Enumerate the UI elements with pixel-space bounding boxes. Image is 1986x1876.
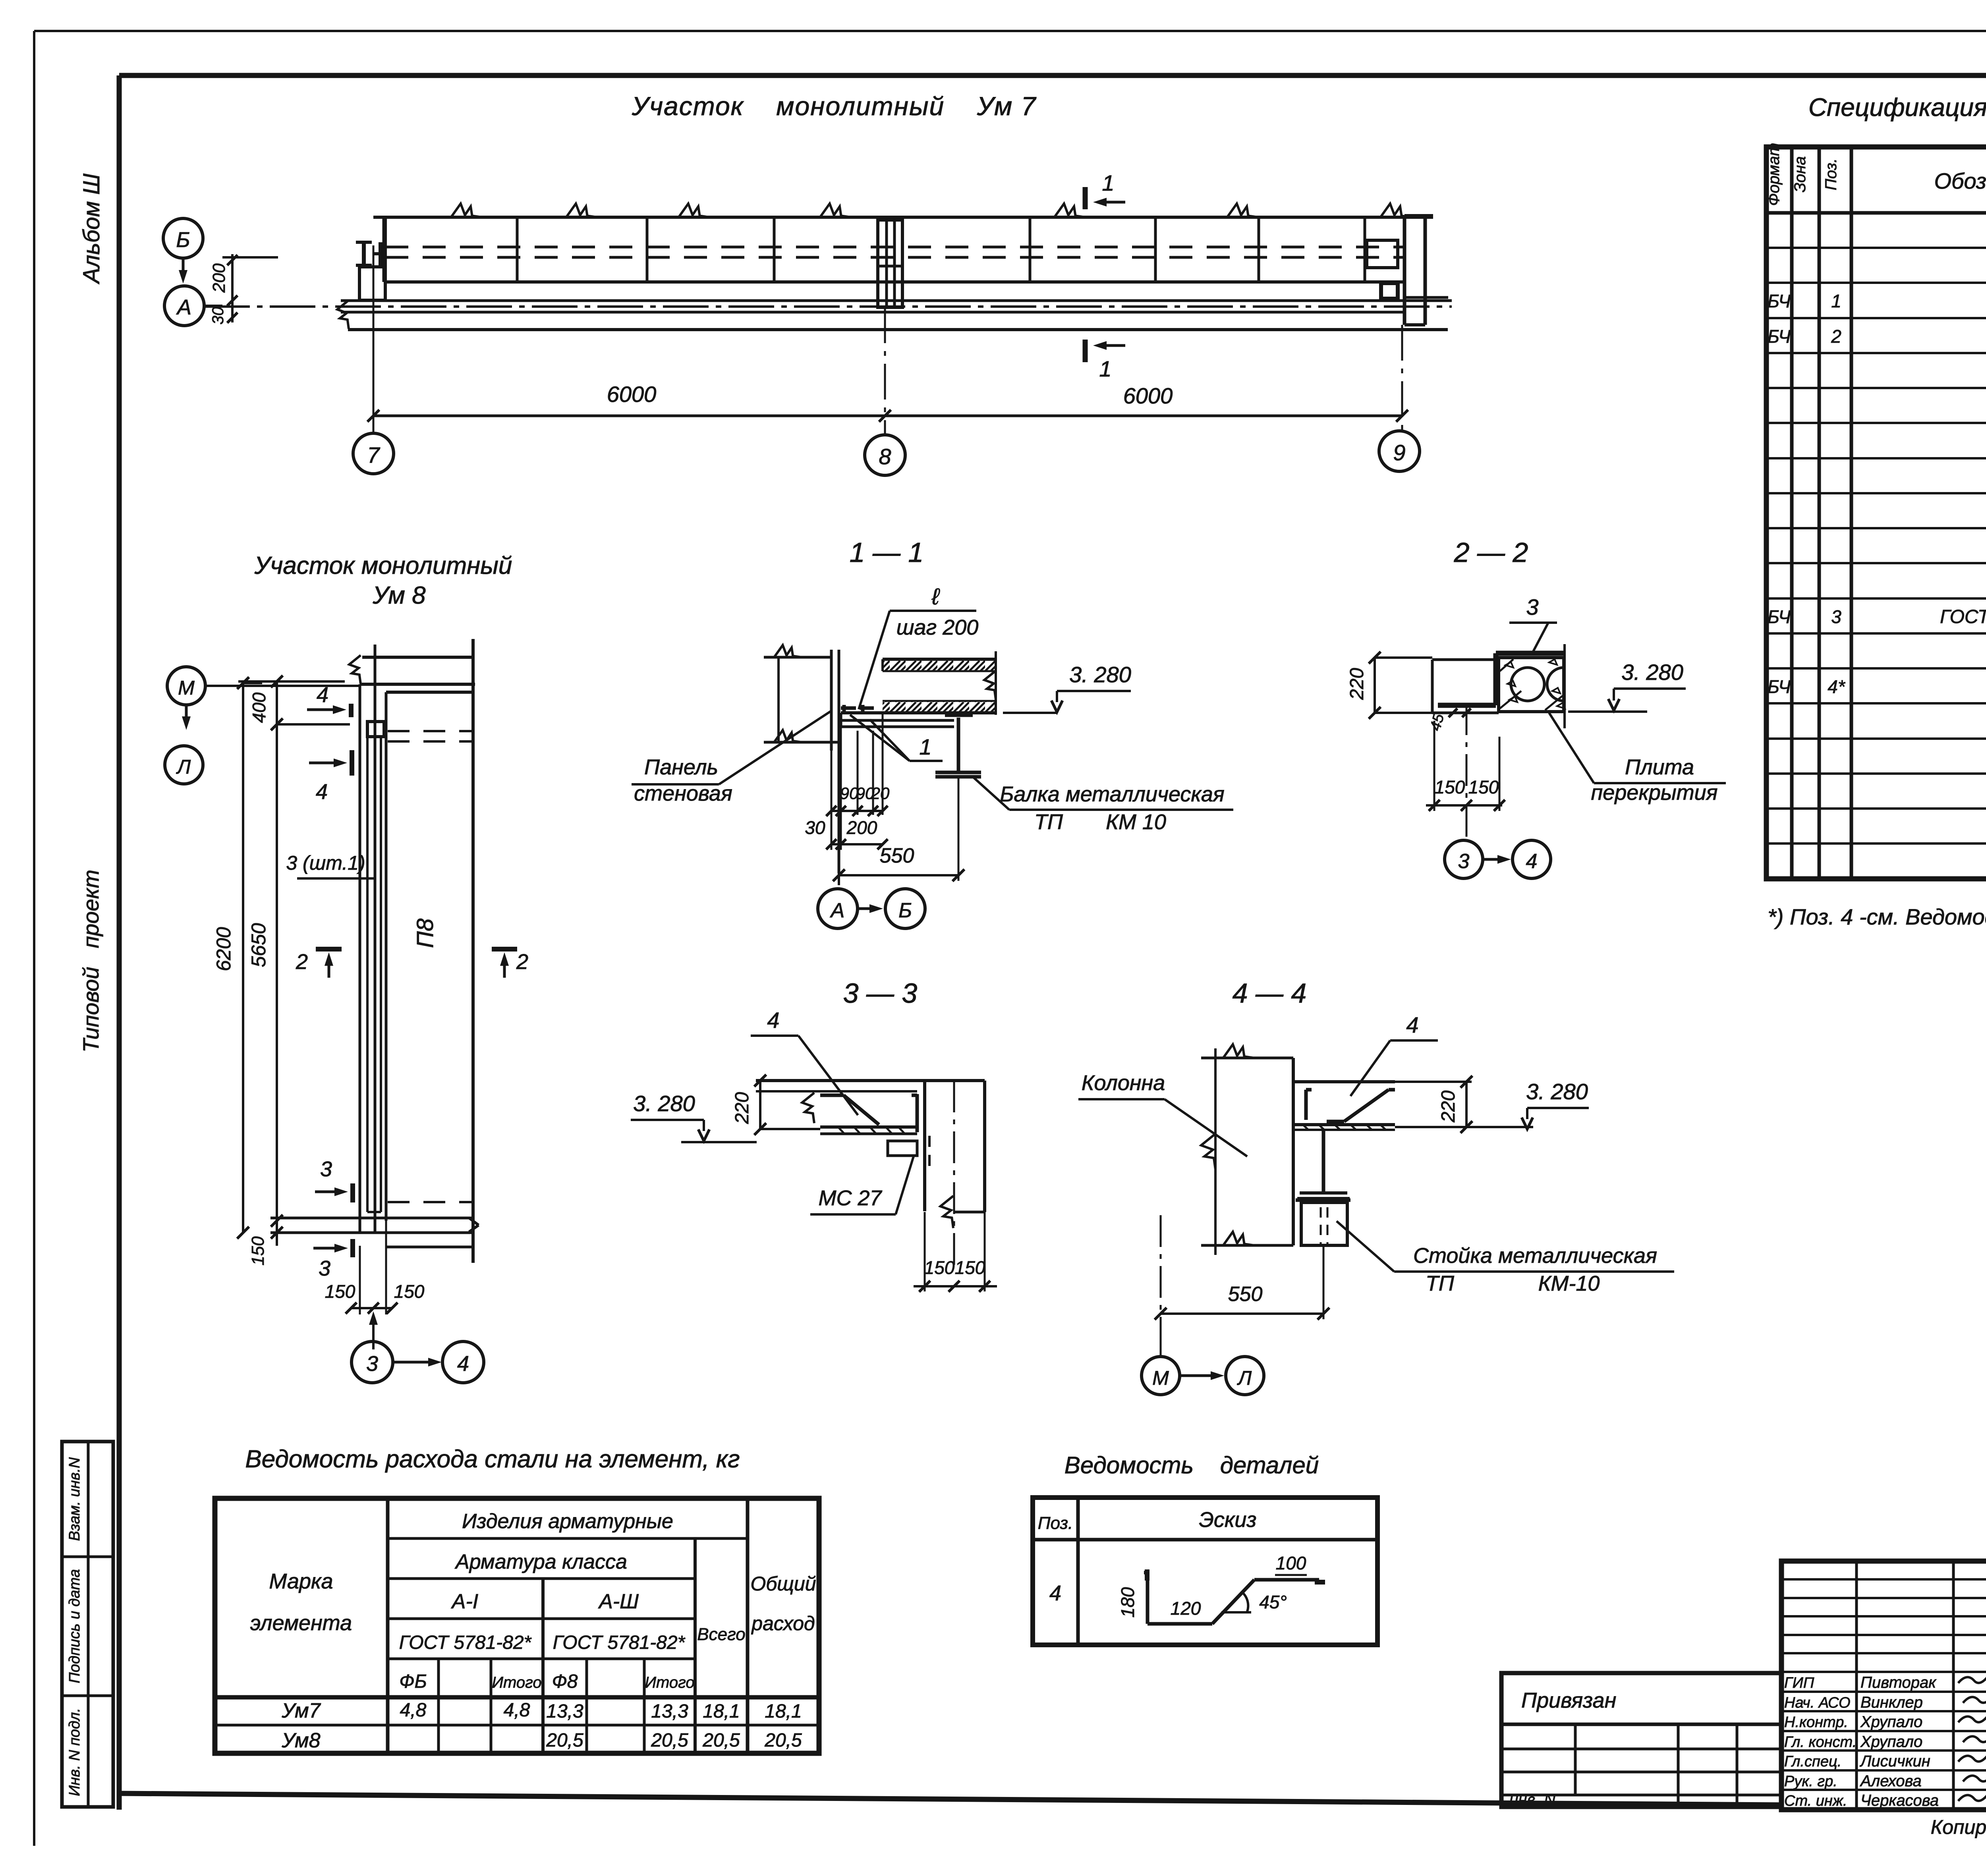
rebar pos.3 strip xyxy=(366,737,369,1212)
detail 4 sketch xyxy=(1146,1575,1149,1624)
svg-text:Нач. АСО: Нач. АСО xyxy=(1784,1695,1851,1711)
dim 550 (sec 1-1) xyxy=(839,874,958,876)
P8 panel right edge xyxy=(471,639,475,1263)
svg-text:4 — 4: 4 — 4 xyxy=(1233,978,1307,1009)
grid circle 3 (bottom) xyxy=(372,1325,375,1349)
bearing plate xyxy=(1296,1199,1350,1202)
svg-text:4: 4 xyxy=(1526,850,1538,873)
svg-text:Колонна: Колонна xyxy=(1082,1071,1165,1095)
small anchor plate xyxy=(1381,283,1398,299)
small dims 200 / 30 near grid 7 xyxy=(231,254,234,322)
svg-text:Рук. гр.: Рук. гр. xyxy=(1784,1773,1837,1790)
dim 6200 xyxy=(242,683,244,1233)
axis circle L (sec 4-4) xyxy=(1226,1357,1264,1395)
bottom dim 150 150 xyxy=(351,1307,392,1309)
dim line 30 / 200 xyxy=(831,843,883,845)
M axis vertical xyxy=(1160,1215,1162,1310)
I-beam KM10: web xyxy=(957,718,960,772)
svg-text:30: 30 xyxy=(209,307,227,325)
dim 400 xyxy=(276,681,278,724)
svg-text:А-Ш: А-Ш xyxy=(598,1590,639,1613)
svg-text:180: 180 xyxy=(1117,1587,1138,1617)
section 1-1 cut mark (top) xyxy=(1083,187,1088,209)
svg-text:4*: 4* xyxy=(1828,676,1846,697)
svg-text:3. 280: 3. 280 xyxy=(1621,660,1683,685)
svg-text:4: 4 xyxy=(1049,1581,1061,1605)
column (sec 4-4) xyxy=(1292,1058,1295,1245)
svg-text:3 (шт.1): 3 (шт.1) xyxy=(286,852,365,874)
svg-text:6000: 6000 xyxy=(1123,383,1173,408)
svg-text:1: 1 xyxy=(1099,356,1111,381)
Um8 top slab edges xyxy=(362,656,473,659)
extension lines 150 150 xyxy=(1433,721,1435,811)
svg-text:БЧ: БЧ xyxy=(1768,676,1791,697)
dim line 90 90 20 xyxy=(831,810,883,812)
svg-text:1: 1 xyxy=(919,734,931,759)
svg-text:550: 550 xyxy=(880,844,914,867)
panel joints xyxy=(383,217,385,282)
svg-text:Общий: Общий xyxy=(750,1573,816,1595)
svg-text:13,3: 13,3 xyxy=(651,1701,688,1722)
svg-text:20,5: 20,5 xyxy=(651,1730,688,1751)
svg-text:3: 3 xyxy=(366,1352,378,1376)
svg-text:БЧ: БЧ xyxy=(1768,291,1791,311)
svg-text:Эскиз: Эскиз xyxy=(1199,1508,1256,1532)
svg-text:ФБ: ФБ xyxy=(399,1671,427,1692)
svg-text:4: 4 xyxy=(316,780,328,804)
svg-text:220: 220 xyxy=(1438,1090,1459,1123)
wall panel verticals xyxy=(830,650,833,751)
grid line 8 xyxy=(884,307,886,435)
svg-text:3: 3 xyxy=(1526,594,1538,620)
svg-text:Зона: Зона xyxy=(1791,156,1809,192)
section mark 4 (lower) xyxy=(350,750,354,776)
svg-text:Типовой проект: Типовой проект xyxy=(78,870,103,1052)
svg-text:М: М xyxy=(1152,1367,1169,1389)
Um8 bottom edges xyxy=(270,1217,474,1220)
svg-text:20: 20 xyxy=(871,784,890,803)
svg-text:Участок монолитный: Участок монолитный xyxy=(254,552,512,579)
svg-text:Изделия арматурные: Изделия арматурные xyxy=(462,1510,673,1533)
svg-text:3: 3 xyxy=(1831,606,1841,627)
svg-text:Алехова: Алехова xyxy=(1860,1772,1922,1790)
slab bottom edge xyxy=(841,711,996,714)
svg-text:7: 7 xyxy=(367,442,380,467)
svg-text:1: 1 xyxy=(1831,291,1841,311)
svg-text:4,8: 4,8 xyxy=(504,1700,530,1721)
svg-text:Хрупало: Хрупало xyxy=(1860,1713,1922,1731)
axis circle M xyxy=(167,667,205,705)
svg-text:20,5: 20,5 xyxy=(546,1730,583,1751)
svg-text:4: 4 xyxy=(767,1007,779,1033)
svg-text:Арматура класса: Арматура класса xyxy=(454,1550,627,1573)
svg-text:150: 150 xyxy=(325,1281,355,1302)
section mark 2 (right) xyxy=(492,947,517,952)
end wall piece at grid 7 xyxy=(359,267,385,300)
svg-text:Альбом Ш: Альбом Ш xyxy=(79,173,104,284)
svg-text:*) Поз. 4 -см. Ведомость дет: *) Поз. 4 -см. Ведомость деталей xyxy=(1768,904,1986,929)
hidden dashed line bottom xyxy=(388,1201,472,1203)
dim 150 (bottom left) xyxy=(276,1221,278,1246)
inner drawing frame xyxy=(119,73,1986,78)
slab half core at edge xyxy=(1547,668,1564,701)
svg-text:инв. N: инв. N xyxy=(1509,1791,1555,1808)
anchor bar xyxy=(1304,1090,1308,1120)
dim 220 (sec 2-2) xyxy=(1374,658,1376,713)
axis circle 3 (sec 2-2) xyxy=(1445,840,1483,878)
svg-text:КМ 10: КМ 10 xyxy=(1106,810,1166,834)
svg-text:Спецификация участков мон: Спецификация участков монолитных Ум 7, У… xyxy=(1808,93,1986,122)
svg-text:120: 120 xyxy=(1171,1598,1201,1619)
thin formwork rect xyxy=(1431,660,1434,713)
svg-text:Хрупало: Хрупало xyxy=(1860,1733,1922,1751)
svg-text:Ум7: Ум7 xyxy=(281,1699,321,1722)
main title block frame xyxy=(1781,1561,1986,1810)
svg-text:Формат: Формат xyxy=(1765,143,1783,206)
axis dash-dot (sec 2-2) xyxy=(1466,703,1468,840)
svg-text:150: 150 xyxy=(924,1257,955,1278)
svg-text:9: 9 xyxy=(1393,440,1405,465)
panel band: hidden dashed lines xyxy=(385,246,1404,249)
beam shelf (sec 3-3) xyxy=(820,1125,917,1129)
slab hatched strips xyxy=(883,661,996,671)
svg-text:200: 200 xyxy=(209,263,229,293)
svg-text:2 — 2: 2 — 2 xyxy=(1454,537,1528,568)
lower slab edge line xyxy=(341,311,1404,314)
svg-text:ГОСТ 5781-82*: ГОСТ 5781-82* xyxy=(553,1632,686,1653)
svg-text:4: 4 xyxy=(1406,1012,1418,1037)
hollow core slab outline xyxy=(1499,658,1564,712)
svg-text:150: 150 xyxy=(394,1281,425,1302)
svg-text:Ф8: Ф8 xyxy=(552,1671,578,1692)
svg-text:150: 150 xyxy=(248,1236,268,1266)
signature table columns xyxy=(1855,1561,1858,1810)
dim 5650 xyxy=(276,724,278,1221)
svg-text:550: 550 xyxy=(1228,1283,1263,1306)
axis circle B xyxy=(163,218,203,258)
panel band: bottom edge xyxy=(385,280,1404,284)
svg-text:А: А xyxy=(830,899,845,922)
svg-text:3: 3 xyxy=(320,1157,332,1181)
left stamp table xyxy=(62,1442,113,1807)
slab core circle xyxy=(1511,668,1544,701)
monolith thick outline xyxy=(1496,651,1565,656)
svg-text:Гл. конст.: Гл. конст. xyxy=(1784,1734,1857,1751)
svg-text:ℓ: ℓ xyxy=(931,584,940,610)
svg-text:Гл.спец.: Гл.спец. xyxy=(1784,1753,1841,1770)
bottom outline xyxy=(348,328,1448,331)
I-beam bottom flange xyxy=(935,771,981,774)
svg-text:3. 280: 3. 280 xyxy=(1526,1079,1588,1104)
svg-text:6200: 6200 xyxy=(213,927,235,971)
svg-text:220: 220 xyxy=(732,1092,753,1124)
beam top flange xyxy=(1293,1123,1395,1126)
svg-text:Пивторак: Пивторак xyxy=(1860,1674,1937,1691)
svg-text:2: 2 xyxy=(516,950,528,974)
hidden dashed pair top xyxy=(388,730,473,732)
grid line 7 xyxy=(373,245,375,433)
axis circle 4 (sec 2-2) xyxy=(1513,840,1551,878)
end column at grid 9 xyxy=(1403,216,1406,325)
svg-text:БЧ: БЧ xyxy=(1768,326,1791,347)
axis circle A (sec 1-1) xyxy=(818,889,858,928)
svg-text:Ведомость деталей: Ведомость деталей xyxy=(1064,1452,1319,1478)
I-beam end symbol at grid 7 xyxy=(362,242,366,265)
spec table grid xyxy=(1766,147,1986,879)
svg-text:Винклер: Винклер xyxy=(1860,1694,1923,1711)
grid line 9 xyxy=(1401,325,1403,431)
svg-text:Ведомость расхода стали на э: Ведомость расхода стали на элемент, кг xyxy=(245,1446,740,1473)
svg-text:Участок монолитный Ум 7: Участок монолитный Ум 7 xyxy=(632,91,1037,121)
bent bar pos4 xyxy=(820,1094,844,1097)
svg-text:220: 220 xyxy=(1347,668,1368,700)
steel table grid xyxy=(215,1498,819,1753)
svg-text:400: 400 xyxy=(249,692,269,723)
grid circle 9 xyxy=(1379,431,1420,471)
svg-text:ГОСТ 5781-82*: ГОСТ 5781-82* xyxy=(399,1632,532,1653)
slab top edge xyxy=(883,658,996,661)
svg-text:20,5: 20,5 xyxy=(764,1730,802,1751)
wall axis dash below xyxy=(838,873,840,889)
axis circle B (sec 1-1) xyxy=(885,889,925,928)
svg-text:Копировал Марченко: Копировал Марченко xyxy=(1931,1816,1986,1838)
svg-text:БЧ: БЧ xyxy=(1768,606,1791,627)
45 deg arc xyxy=(1242,1592,1248,1612)
wall panel band: top edge xyxy=(373,216,1433,219)
column break top xyxy=(1201,1057,1293,1060)
svg-text:4: 4 xyxy=(317,683,328,707)
svg-text:ТП: ТП xyxy=(1426,1272,1455,1295)
dim 550 (sec 4-4) xyxy=(1161,1312,1323,1315)
Um8 strip verticals xyxy=(359,684,361,1233)
grid circle 7 xyxy=(353,433,394,474)
rebar hooks pos 1 xyxy=(841,706,856,710)
right extension line xyxy=(1563,644,1566,728)
svg-text:150: 150 xyxy=(1468,777,1499,797)
svg-text:Инв. N подл.: Инв. N подл. xyxy=(66,1708,83,1796)
column at grid 8 xyxy=(878,220,902,307)
bent bar pos 4 xyxy=(1327,1120,1344,1123)
beam line below panels xyxy=(341,299,1452,302)
top slab line (sec 3-3) xyxy=(756,1079,985,1082)
svg-text:Поз.: Поз. xyxy=(1822,158,1840,191)
svg-text:А: А xyxy=(176,295,191,319)
svg-text:Стойка металлическая: Стойка металлическая xyxy=(1413,1244,1657,1268)
svg-text:А-I: А-I xyxy=(451,1590,478,1613)
svg-text:Черкасова: Черкасова xyxy=(1860,1792,1939,1809)
axis A dash-dot line xyxy=(204,305,1452,308)
section 1-1 cut mark (bottom) xyxy=(1083,340,1088,362)
svg-text:ГОСТ 8478-81: ГОСТ 8478-81 xyxy=(1940,606,1986,627)
svg-text:8: 8 xyxy=(879,444,891,469)
grid circle 4 (bottom) xyxy=(442,1341,484,1383)
ledge plate left of grid-9 column xyxy=(1367,240,1398,268)
left break verticals xyxy=(1214,1048,1217,1255)
concrete speckles xyxy=(1505,662,1513,668)
panel left edge xyxy=(384,217,387,282)
wall panel break lines xyxy=(764,656,831,659)
svg-text:100: 100 xyxy=(1276,1553,1306,1573)
dims 150 150 (sec 3-3) xyxy=(924,1212,926,1291)
svg-text:Н.контр.: Н.контр. xyxy=(1784,1714,1848,1731)
extension lines for small dims xyxy=(840,727,842,850)
dim 220 (sec 4-4) xyxy=(1395,1081,1472,1083)
svg-text:3 — 3: 3 — 3 xyxy=(843,978,918,1009)
svg-text:13,3: 13,3 xyxy=(546,1701,583,1722)
stoika (stand) xyxy=(1301,1202,1347,1245)
svg-text:шаг 200: шаг 200 xyxy=(896,616,979,639)
shelf under monolith xyxy=(841,719,954,722)
M axis line xyxy=(205,685,360,687)
svg-text:Всего: Всего xyxy=(697,1625,746,1644)
dim 220 (sec 3-3) xyxy=(759,1081,761,1129)
svg-text:5650: 5650 xyxy=(247,923,270,967)
axis circle A xyxy=(164,286,204,326)
svg-text:Л: Л xyxy=(1237,1367,1252,1389)
svg-text:30: 30 xyxy=(805,817,825,838)
grid dimension line 7-8-9 xyxy=(373,415,1402,417)
I-beam top flange xyxy=(945,714,973,717)
axis circle L xyxy=(165,746,203,784)
column axis dash-dot xyxy=(953,1081,955,1265)
slab body line xyxy=(756,1090,917,1092)
I-beam web (sec 4-4) xyxy=(1322,1130,1325,1193)
svg-text:200: 200 xyxy=(846,817,877,838)
svg-text:расход: расход xyxy=(751,1612,815,1635)
svg-text:М: М xyxy=(178,677,195,699)
svg-text:ГИП: ГИП xyxy=(1784,1675,1814,1691)
svg-text:Б: Б xyxy=(898,899,912,922)
svg-text:Марка: Марка xyxy=(269,1569,333,1593)
svg-text:150: 150 xyxy=(1435,777,1465,797)
svg-text:45°: 45° xyxy=(1259,1592,1287,1612)
column break bottom xyxy=(1201,1244,1293,1247)
svg-text:Подпись и дата: Подпись и дата xyxy=(66,1569,83,1683)
svg-text:18,1: 18,1 xyxy=(765,1701,802,1722)
svg-text:Балка металлическая: Балка металлическая xyxy=(1000,782,1225,806)
svg-text:Ум 8: Ум 8 xyxy=(372,582,426,609)
privyazan table xyxy=(1501,1673,1781,1807)
svg-text:Плита: Плита xyxy=(1625,755,1694,779)
svg-text:3. 280: 3. 280 xyxy=(633,1091,695,1116)
page outer border xyxy=(34,30,1986,32)
svg-text:18,1: 18,1 xyxy=(703,1701,740,1722)
grid circle 8 xyxy=(865,435,905,475)
svg-text:1: 1 xyxy=(1102,170,1114,195)
svg-text:Лисичкин: Лисичкин xyxy=(1859,1752,1930,1770)
svg-text:3: 3 xyxy=(319,1256,330,1280)
anchor bar right xyxy=(916,1094,919,1132)
svg-text:Итого: Итого xyxy=(492,1674,541,1691)
svg-text:Б: Б xyxy=(176,228,190,252)
small box at strip top xyxy=(367,722,384,737)
top slab line (sec 4-4) xyxy=(1293,1080,1395,1083)
svg-text:ТП: ТП xyxy=(1034,810,1063,834)
svg-text:4: 4 xyxy=(457,1352,469,1376)
dim line 150 150 (sec 2-2) xyxy=(1426,804,1502,807)
section mark 3 (lower) xyxy=(350,1239,355,1257)
svg-text:МС 27: МС 27 xyxy=(818,1186,882,1210)
slab left edge / right break xyxy=(881,659,884,671)
svg-text:Взам. инв.N: Взам. инв.N xyxy=(66,1457,83,1541)
svg-text:Ум8: Ум8 xyxy=(281,1729,320,1752)
svg-text:КМ-10: КМ-10 xyxy=(1538,1272,1600,1295)
svg-text:Л: Л xyxy=(176,756,191,778)
svg-text:Обозначение: Обозначение xyxy=(1934,168,1986,193)
svg-text:3. 280: 3. 280 xyxy=(1069,662,1131,687)
arrow 3 to 4 xyxy=(393,1361,428,1364)
hidden anchor dashes xyxy=(928,1136,931,1172)
svg-text:Привязан: Привязан xyxy=(1521,1689,1616,1712)
break squiggles on top edge xyxy=(451,204,482,217)
I-beam bottom flange xyxy=(1300,1191,1347,1195)
svg-text:Итого: Итого xyxy=(645,1674,694,1691)
svg-text:150: 150 xyxy=(955,1257,985,1278)
svg-text:Поз.: Поз. xyxy=(1038,1513,1073,1533)
column (sec 3-3) xyxy=(923,1081,926,1211)
svg-text:Ст. инж.: Ст. инж. xyxy=(1784,1793,1847,1809)
MC27 plate xyxy=(888,1141,917,1156)
break at left end xyxy=(337,300,349,329)
arrow from B to A xyxy=(182,258,185,270)
svg-text:1 — 1: 1 — 1 xyxy=(850,537,924,568)
svg-text:2: 2 xyxy=(1831,326,1841,347)
svg-text:20,5: 20,5 xyxy=(702,1730,740,1751)
svg-text:П8: П8 xyxy=(412,919,438,948)
svg-text:2: 2 xyxy=(296,950,308,974)
svg-text:элемента: элемента xyxy=(250,1611,352,1635)
axis circle M (sec 4-4) xyxy=(1142,1357,1180,1395)
signature table rows xyxy=(1781,1578,1986,1581)
details table grid xyxy=(1033,1498,1377,1645)
svg-text:3: 3 xyxy=(1458,850,1470,873)
svg-text:Панель: Панель xyxy=(644,755,718,779)
svg-text:6000: 6000 xyxy=(607,382,657,407)
svg-text:4,8: 4,8 xyxy=(400,1700,427,1721)
